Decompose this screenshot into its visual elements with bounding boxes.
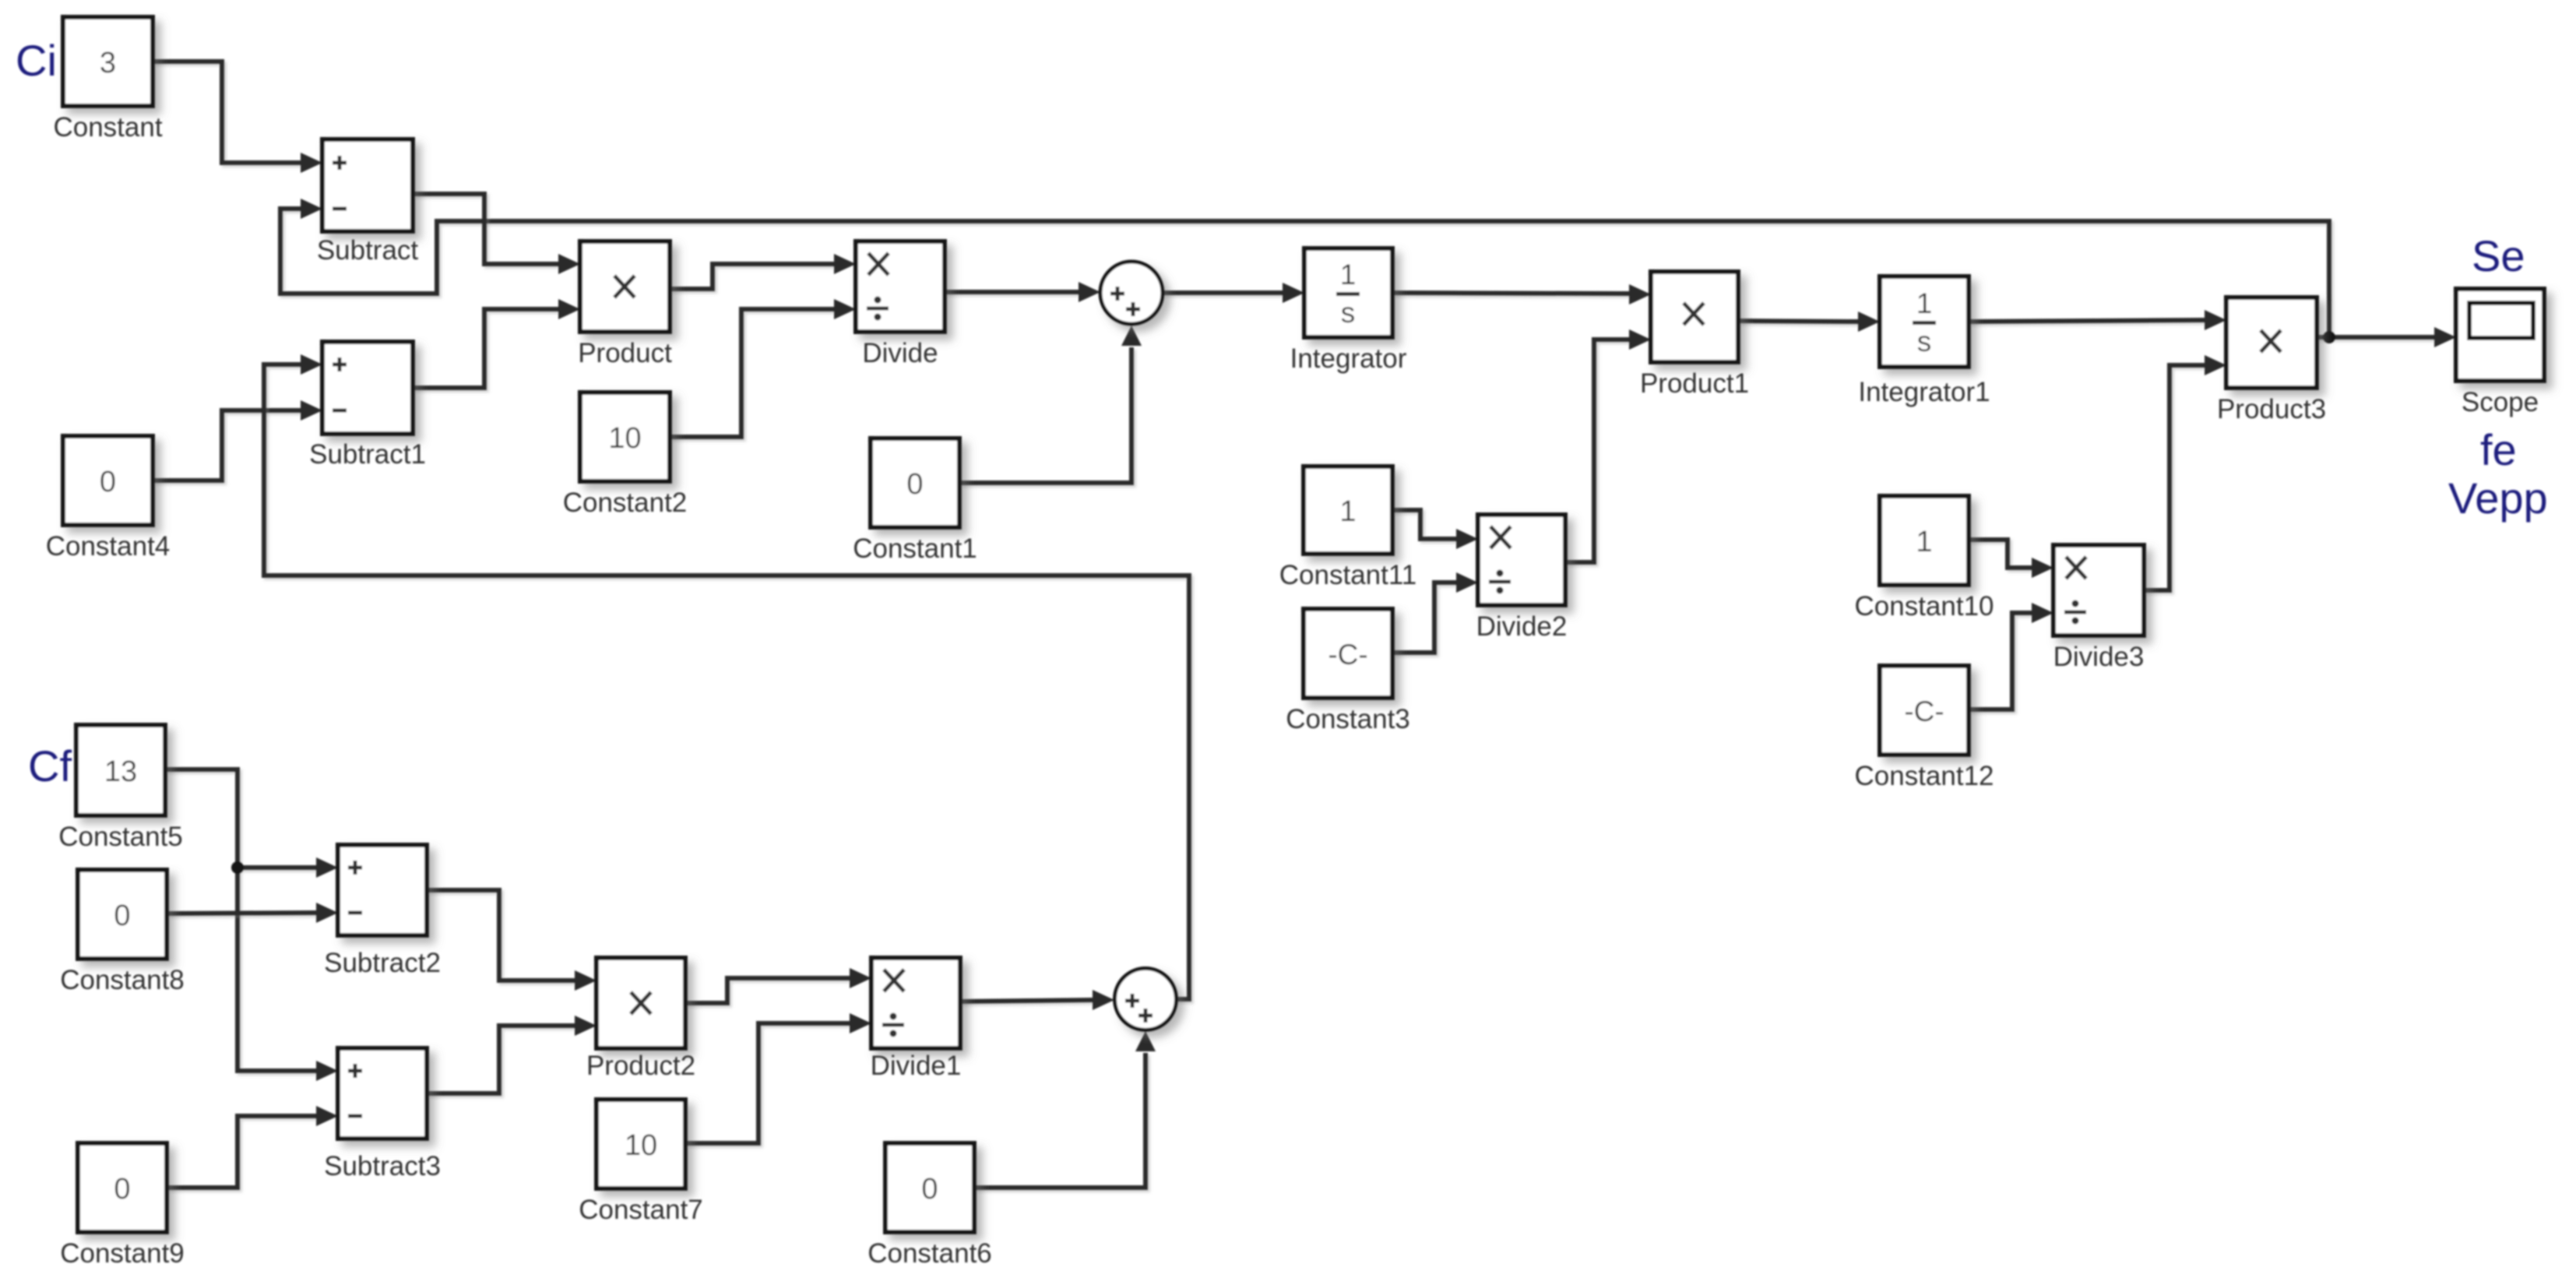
divide block Divide2 xyxy=(1478,515,1565,605)
svg-text:Subtract1: Subtract1 xyxy=(309,439,426,470)
wire Constant10 to Divide3 first input xyxy=(1969,540,2053,578)
X symbol of Product2 xyxy=(631,992,651,1014)
svg-text:Product3: Product3 xyxy=(2217,394,2326,424)
svg-text:1: 1 xyxy=(1339,495,1356,528)
wire Constant2 to Divide second input xyxy=(670,299,856,437)
sum block Subtract xyxy=(322,139,413,231)
plus and minus port signs of Subtract3 xyxy=(348,1064,362,1116)
svg-text:Ci: Ci xyxy=(16,36,57,85)
constant block Constant9 (value 0) xyxy=(78,1143,167,1232)
wire Constant9 to Subtract3 minus input xyxy=(167,1106,338,1188)
plus and minus port signs of Subtract1 xyxy=(333,357,347,410)
svg-text:0: 0 xyxy=(114,1173,130,1206)
svg-text:Cf: Cf xyxy=(28,741,72,790)
wire Constant3 to Divide2 second input xyxy=(1392,572,1478,653)
wire Constant5 to Subtract2 plus input with branch xyxy=(165,769,338,878)
product block Product1 xyxy=(1651,272,1738,362)
constant block Constant7 (value 10) xyxy=(596,1100,685,1188)
wire Constant to Subtract plus input xyxy=(153,62,322,173)
svg-text:Subtract3: Subtract3 xyxy=(324,1151,441,1181)
svg-text:Vepp: Vepp xyxy=(2448,474,2548,523)
constant block Constant2 (value 10) xyxy=(580,393,670,481)
svg-text:Constant1: Constant1 xyxy=(853,533,977,564)
svg-text:0: 0 xyxy=(100,466,116,498)
plus and minus port signs of Subtract2 xyxy=(348,861,362,913)
X and divide symbols of Divide xyxy=(867,253,889,321)
svg-text:Constant5: Constant5 xyxy=(58,822,183,852)
svg-text:10: 10 xyxy=(625,1129,657,1162)
svg-text:1: 1 xyxy=(1916,287,1933,319)
svg-text:Divide2: Divide2 xyxy=(1476,611,1568,642)
svg-text:Constant11: Constant11 xyxy=(1279,560,1416,590)
plus signs inside top Add circle xyxy=(1110,287,1140,316)
product block Product xyxy=(580,241,670,332)
constant block Constant10 (value 1) xyxy=(1880,496,1969,585)
sum block Add1 (bottom circle) xyxy=(1115,969,1177,1030)
wire Divide output to Sum left input xyxy=(945,282,1100,302)
wire Integrator output to Product1 first input xyxy=(1392,284,1651,305)
sum block Add (top circle) xyxy=(1100,262,1163,324)
divide block Divide1 xyxy=(871,958,960,1048)
svg-text:Constant2: Constant2 xyxy=(563,488,688,518)
svg-text:Constant12: Constant12 xyxy=(1854,761,1994,791)
svg-text:Subtract2: Subtract2 xyxy=(324,948,441,978)
integrator block Integrator xyxy=(1304,248,1392,337)
X symbol of Product1 xyxy=(1684,303,1704,325)
wire bottom sum output feedback to Subtract1 plus input xyxy=(264,354,1189,999)
svg-text:1: 1 xyxy=(1916,526,1932,558)
constant block Constant8 (value 0) xyxy=(78,870,167,959)
X and divide symbols of Divide2 xyxy=(1489,526,1511,594)
product block Product3 xyxy=(2226,297,2317,388)
svg-text:Product1: Product1 xyxy=(1640,368,1749,399)
wire Constant12 to Divide3 second input xyxy=(1969,603,2053,709)
wire Divide3 output to Product3 second input xyxy=(2144,355,2226,590)
X symbol of Product xyxy=(614,276,635,297)
svg-text:0: 0 xyxy=(906,468,923,501)
junction dot on Constant5 branch xyxy=(231,861,244,874)
svg-text:Product2: Product2 xyxy=(586,1051,695,1081)
svg-text:-C-: -C- xyxy=(1904,695,1944,727)
wire Constant6 to bottom sum bottom input xyxy=(974,1031,1156,1188)
svg-text:fe: fe xyxy=(2480,425,2517,474)
svg-text:Constant: Constant xyxy=(53,112,162,143)
constant block Constant (value 3) xyxy=(63,17,153,106)
wire Constant11 to Divide2 first input xyxy=(1392,510,1478,549)
svg-text:Product: Product xyxy=(578,338,672,368)
wire Divide2 output to Product1 second input xyxy=(1565,329,1651,562)
svg-text:-C-: -C- xyxy=(1328,639,1367,671)
wire Constant8 to Subtract2 minus input xyxy=(167,903,338,923)
sum block Subtract3 xyxy=(338,1048,427,1139)
sum block Subtract1 xyxy=(322,342,413,434)
svg-text:Scope: Scope xyxy=(2462,387,2539,417)
wire branch of Constant5 down to Subtract3 plus input xyxy=(238,868,338,1081)
plus and minus port signs of Subtract xyxy=(333,156,347,209)
svg-text:0: 0 xyxy=(114,899,130,932)
svg-text:Subtract: Subtract xyxy=(317,235,419,266)
svg-text:Constant3: Constant3 xyxy=(1286,704,1410,734)
wire Product output to Divide first input xyxy=(670,254,856,289)
svg-text:0: 0 xyxy=(921,1173,938,1206)
wire Product3 output to Scope input xyxy=(2317,327,2456,347)
svg-text:s: s xyxy=(1341,297,1356,329)
constant block Constant12 (value -C-) xyxy=(1880,666,1969,755)
wire Divide1 output to bottom sum left input xyxy=(960,990,1114,1010)
svg-text:1: 1 xyxy=(1340,259,1357,290)
scope screen icon xyxy=(2469,303,2533,338)
svg-text:Divide3: Divide3 xyxy=(2053,642,2145,672)
svg-text:Constant7: Constant7 xyxy=(579,1195,703,1225)
wire Product1 output to Integrator1 input xyxy=(1738,312,1880,332)
svg-text:Divide: Divide xyxy=(862,338,938,368)
product block Product2 xyxy=(596,958,685,1048)
wire Sum output to Integrator input xyxy=(1163,283,1304,303)
wire Constant1 to Sum bottom input xyxy=(959,326,1142,483)
wire Subtract1 output to Product second input xyxy=(413,299,580,388)
1/s fraction of Integrator1 xyxy=(1913,287,1936,357)
svg-text:Divide1: Divide1 xyxy=(871,1051,962,1081)
X and divide symbols of Divide1 xyxy=(882,970,904,1037)
svg-text:s: s xyxy=(1917,326,1932,357)
wire Subtract3 output to Product2 second input xyxy=(427,1016,596,1093)
svg-text:Constant9: Constant9 xyxy=(60,1238,185,1269)
svg-text:Constant10: Constant10 xyxy=(1854,591,1994,621)
svg-text:3: 3 xyxy=(100,47,116,79)
constant block Constant11 (value 1) xyxy=(1304,466,1392,554)
constant block Constant6 (value 0) xyxy=(885,1143,974,1232)
wire Constant4 to Subtract1 minus input xyxy=(153,400,322,481)
constant block Constant3 (value -C-) xyxy=(1304,609,1392,698)
scope block Scope xyxy=(2456,289,2544,381)
svg-text:Integrator1: Integrator1 xyxy=(1858,377,1990,407)
svg-text:13: 13 xyxy=(104,755,137,788)
wire feedback from Product3 output node to Subtract minus input xyxy=(280,199,2329,337)
svg-text:Constant6: Constant6 xyxy=(867,1238,992,1269)
divide block Divide xyxy=(856,241,945,332)
svg-text:Constant8: Constant8 xyxy=(60,965,185,995)
constant block Constant5 (value 13) xyxy=(76,725,165,815)
constant block Constant4 (value 0) xyxy=(63,436,153,525)
plus signs inside bottom Add circle xyxy=(1125,994,1153,1023)
wire Integrator1 output to Product3 first input xyxy=(1969,310,2226,330)
wire Subtract output to Product first input xyxy=(413,194,580,274)
integrator block Integrator1 xyxy=(1880,276,1969,367)
wire Constant7 to Divide1 second input xyxy=(685,1013,871,1143)
svg-text:Constant4: Constant4 xyxy=(46,531,171,562)
wire Subtract2 output to Product2 first input xyxy=(427,890,596,991)
X symbol of Product3 xyxy=(2261,330,2281,352)
svg-text:10: 10 xyxy=(608,422,641,455)
svg-text:Integrator: Integrator xyxy=(1290,343,1407,374)
svg-text:Se: Se xyxy=(2472,231,2525,280)
wire Product2 output to Divide1 first input xyxy=(685,968,871,1003)
divide block Divide3 xyxy=(2053,545,2144,635)
junction dot at Product3 output node xyxy=(2323,331,2335,343)
X and divide symbols of Divide3 xyxy=(2064,557,2086,625)
1/s fraction of Integrator xyxy=(1336,259,1360,329)
constant block Constant1 (value 0) xyxy=(871,438,959,527)
sum block Subtract2 xyxy=(338,845,427,935)
